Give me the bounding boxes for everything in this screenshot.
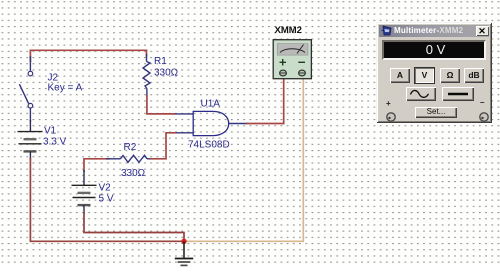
button A [390,68,410,84]
button V (pressed) [415,68,434,84]
minus jack label [480,98,484,107]
plus jack label [386,99,391,108]
button DC line (pressed) [442,87,474,101]
button dB [464,68,484,84]
label J2 [48,73,59,84]
svg-text:R2: R2 [124,142,137,153]
svg-text:3.3 V: 3.3 V [43,137,67,148]
svg-text:XMM2: XMM2 [275,25,302,36]
label 5 V [99,194,114,205]
label Key = A [48,83,83,94]
label XMM2 [275,25,302,36]
multimeter instrument XMM2 icon [273,40,311,79]
multimeter panel window XMM2 [376,22,492,123]
battery V2 [72,170,97,214]
label 74LS08D [188,140,230,151]
title bar [379,25,489,37]
label R1 [154,56,167,67]
wire XMM2 minus terminal to ground node (orange net) [185,77,303,241]
svg-text:Key = A: Key = A [48,83,83,94]
label 330ohm R1 [154,68,179,79]
plus jack [385,111,397,123]
wire top rail from J2 to R1 [30,50,146,62]
wire V2 to ground node [84,212,184,241]
button ohm [440,68,460,84]
svg-text:V1: V1 [44,126,57,137]
title bar icon [381,25,393,37]
svg-text:5 V: 5 V [99,194,114,205]
minus jack [478,111,490,123]
wire V2 to R2 [84,159,110,172]
U1A pin 1 lead [175,113,193,115]
U1A pin 2 lead [175,132,193,134]
svg-text:V2: V2 [99,183,112,194]
close button [476,26,489,37]
wire U1A output to XMM2 plus terminal [246,77,284,124]
ground symbol [175,241,193,265]
switch J2 [19,56,32,122]
svg-text:330Ω: 330Ω [121,168,146,179]
junction dot ground node [181,239,186,244]
display 0 V [382,40,486,61]
AND gate U1A body [193,111,229,135]
svg-text:74LS08D: 74LS08D [188,140,230,151]
button Set [415,107,457,118]
wire V1 to ground rail [30,158,184,241]
resistor R1 [143,54,150,96]
label 3.3 V [43,137,67,148]
svg-text:R1: R1 [154,56,167,67]
battery V1 [18,120,43,160]
wire R2 to U1A pin2 [150,133,176,159]
wire R1 to U1A pin1 [147,95,175,114]
label R2 [124,142,137,153]
svg-text:U1A: U1A [201,99,221,110]
svg-text:330Ω: 330Ω [154,68,179,79]
label V2 [99,183,112,194]
U1A output pin lead [229,123,248,125]
button sine AC [406,87,436,101]
resistor R2 [106,155,152,162]
label 330ohm R2 [121,168,146,179]
label U1A [201,99,221,110]
label V1 [44,126,57,137]
